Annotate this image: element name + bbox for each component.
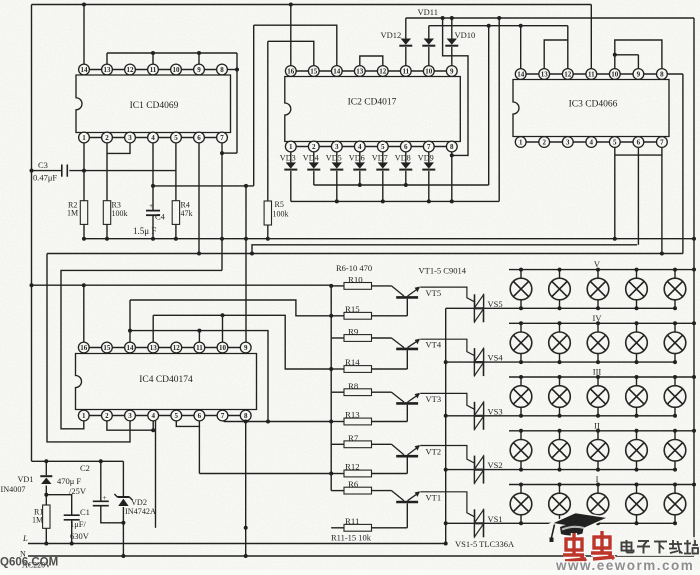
watermark chong chong red characters [563, 531, 614, 561]
lamp row II bulb 5 [664, 431, 686, 470]
wire N line [28, 555, 694, 557]
capacitor C4 [146, 201, 160, 239]
lamp row V bulb 2 [549, 270, 571, 309]
wire VDD top rail [32, 3, 592, 69]
wire even diode bus [291, 199, 499, 203]
lamp row I bulb 2 [549, 485, 571, 524]
wire IC2 pin14 feed [254, 25, 337, 66]
watermark dianzi xiazaizhan characters [617, 537, 700, 556]
wire IC1 pin6 to IC3 pin8 route [47, 74, 683, 442]
resistor R12 [331, 470, 407, 477]
wire lamp row rail II [446, 468, 677, 472]
label VT3 [426, 394, 442, 404]
label R13 [345, 410, 360, 420]
label VS3 [488, 406, 503, 416]
triac VS2 [475, 456, 484, 484]
wire IC3 pin12 feed [567, 26, 569, 69]
label VS5 [488, 299, 503, 309]
wire IC3 pin13 bridge [544, 40, 568, 69]
wire IC1 pin5 drop [175, 143, 177, 201]
resistor R14 [331, 366, 407, 373]
wire IC3 pin6 long route [252, 147, 638, 253]
wire IC4 pin2-pin4 bridge [107, 421, 155, 432]
wire IC3 pin5 drop [614, 155, 616, 239]
wire IC2 pin13-pin12 bridge [360, 56, 383, 66]
label R3 100k [112, 201, 128, 218]
resistor R11 [331, 524, 407, 531]
label VD3 [280, 153, 296, 162]
wire IC4 pin11 riser [197, 329, 201, 343]
IC IC2 package [285, 66, 461, 152]
label C4 1.5uF [133, 212, 166, 237]
label R4 47k [181, 201, 193, 218]
IC IC4 package [76, 342, 257, 421]
wire VT4 emitter to VS4 gate [420, 339, 474, 355]
wire lamp row top rail III [509, 375, 694, 379]
diode VD11 [422, 26, 435, 66]
lamp row I bulb 3 [587, 485, 609, 524]
resistor R13 [331, 418, 407, 425]
wire triac common bus [444, 308, 448, 543]
wire IC4 pin16 riser [83, 285, 85, 342]
transistor VT3 [392, 392, 420, 421]
wire right AC bus [692, 18, 696, 556]
lamp row III bulb 5 [664, 377, 686, 416]
wire rail A drop [498, 18, 500, 201]
resistor R9 [331, 335, 391, 342]
wire IC1 pin6 route corner [0, 0, 1, 1]
wire VT2 emitter to VS2 gate [420, 446, 474, 464]
wire lamp row top rail V [509, 268, 694, 272]
diode VD9 [422, 152, 435, 202]
lamp row IV bulb 3 [587, 323, 609, 362]
wire IC1 pin7 to IC4 pin1 route [61, 270, 222, 428]
label R9 [348, 327, 359, 337]
triac VS4 [475, 348, 484, 376]
transistor VT5 [392, 286, 420, 316]
wire IC1 pin6 drop [197, 143, 201, 256]
label VT4 [426, 339, 442, 349]
diode VD3 [284, 152, 297, 202]
label VD1 IN4007 [1, 475, 34, 494]
wire IC1 pin14 riser [83, 5, 85, 65]
label VD10 [455, 30, 476, 40]
lamp row III bulb 4 [626, 377, 648, 416]
diode VD10 [445, 18, 458, 66]
wire rail B drop [488, 26, 490, 185]
resistor R5 [264, 41, 271, 238]
diode VD8 [399, 152, 412, 185]
wire resistor ground rail [82, 237, 694, 241]
label R6-10 470 [336, 263, 372, 273]
label C3 [33, 160, 57, 183]
lamp row IV bulb 2 [549, 323, 571, 362]
wire VT3 emitter to VS3 gate [420, 393, 474, 409]
wire IC4 pin13 route [153, 313, 331, 369]
diode VD1 [40, 461, 52, 496]
lamp row V bulb 4 [626, 270, 648, 309]
triac VS3 [475, 402, 484, 430]
wire IC2 pin16 riser [290, 5, 292, 66]
label R10 [348, 275, 363, 285]
wire VT5 emitter to VS5 gate [420, 287, 474, 302]
wire lamp row rail IV [446, 360, 677, 364]
lamp row III bulb 1 [510, 377, 532, 416]
resistor R10 [331, 283, 391, 290]
wire lamp row rail I [446, 521, 677, 525]
wire IC3 pin5-pin7 bridge [615, 147, 662, 155]
label row I [596, 474, 599, 484]
label row IV [593, 313, 603, 323]
resistor R15 [331, 312, 407, 319]
label R12 [345, 462, 360, 472]
label C2 470uF 25V [57, 463, 90, 496]
wire IC2 pin8 drop [450, 152, 454, 202]
wire channel2 lower feed [199, 473, 331, 475]
wire odd diode bus [314, 183, 489, 187]
transistor VT1 [392, 491, 420, 528]
wire IC3 pin7 drop [661, 155, 663, 253]
capacitor C1 [46, 495, 79, 544]
lamp row III bulb 3 [587, 377, 609, 416]
wire IC2 pin9 loop [443, 18, 468, 155]
label VT1 [426, 493, 442, 503]
diode VD6 [353, 152, 366, 185]
label row III [593, 367, 602, 377]
capacitor C2 [93, 461, 126, 525]
wire sync rail lower [429, 24, 568, 28]
lamp row II bulb 3 [587, 431, 609, 470]
lamp row V bulb 1 [510, 270, 532, 309]
label R7 [348, 433, 359, 443]
wire channel input bus [329, 284, 333, 491]
capacitor C3 [32, 165, 176, 177]
wire lamp row rail V [446, 306, 677, 310]
lamp row V bulb 5 [664, 270, 686, 309]
wire IC1 pin4 drop [151, 143, 155, 211]
lamp row I bulb 4 [626, 485, 648, 524]
label R1 1M [32, 508, 43, 525]
label VD11 [418, 7, 438, 17]
wire IC3 pin10 pin9 pin8 bridges [613, 40, 662, 69]
label VD8 [395, 153, 411, 162]
resistor R2 [80, 201, 87, 239]
lamp row I bulb 5 [664, 485, 686, 524]
wire IC4 pin7 stub [223, 420, 225, 423]
label VD12 [381, 30, 402, 40]
resistor R3 [103, 201, 110, 239]
wire lamp row top rail II [509, 429, 694, 433]
label row II [594, 420, 600, 430]
wire IC1 pin1 drop [83, 143, 85, 201]
label VD7 [372, 153, 388, 162]
label R5 100k [273, 200, 289, 219]
label VT2 [426, 447, 442, 457]
label VT5 [426, 288, 442, 298]
wire IC4 pin4 drop to R11 line [155, 421, 157, 528]
label R11 [345, 516, 359, 526]
label VS1-5 TLC336A [455, 539, 515, 549]
label L [22, 533, 28, 543]
wire IC4 pin8 ground drop [244, 420, 248, 559]
label VD5 [326, 153, 342, 162]
watermark www.eeworm.com [555, 558, 694, 573]
label R14 [345, 357, 360, 367]
triac VS5 [475, 294, 484, 322]
wire DC node line [32, 459, 124, 463]
resistor R1 [43, 495, 50, 544]
resistor R4 [172, 201, 179, 239]
lamp row II bulb 2 [549, 431, 571, 470]
label VD6 [349, 153, 365, 162]
label R15 [345, 304, 360, 314]
lamp row II bulb 1 [510, 431, 532, 470]
wire lamp row rail III [446, 414, 677, 418]
wire lamp row top rail I [509, 483, 694, 487]
watermark Q606.COM [0, 557, 58, 569]
diode VD12 [399, 18, 412, 66]
lamp row V bulb 3 [587, 270, 609, 309]
wire IC4 pin5-pin6 bridge [176, 421, 199, 427]
wire pin14 branch to R13 line [130, 331, 270, 424]
label VD9 [418, 153, 434, 162]
label VD2 IN4742A [125, 498, 156, 516]
transistor VT2 [392, 444, 420, 473]
label VS2 [488, 460, 503, 470]
label R11-15 10k [331, 533, 372, 543]
diode VD7 [376, 152, 389, 202]
diode VD5 [330, 152, 343, 202]
diode VD4 [307, 152, 320, 185]
wire osc node to IC2 pin14 and IC4 pin9 [153, 25, 254, 342]
lamp row IV bulb 4 [626, 323, 648, 362]
label N [20, 550, 26, 559]
lamp row I bulb 1 [510, 485, 532, 524]
wire VDD to channel5 bus [32, 283, 332, 287]
wire IC1 pin7 ground drop [220, 143, 224, 271]
label C1 1uF 630V [70, 507, 90, 541]
IC IC3 package [513, 69, 669, 148]
lamp row IV bulb 5 [664, 323, 686, 362]
wire IC3 pin14 riser [520, 26, 522, 69]
lamp row III bulb 2 [549, 377, 571, 416]
wire IC4 pin14 route [128, 300, 331, 342]
label R6 [348, 479, 359, 489]
label R8 [348, 381, 359, 391]
wire IC1 pin2-pin3 bridge [107, 143, 130, 154]
transistor VT4 [392, 338, 420, 369]
lamp row IV bulb 1 [510, 323, 532, 362]
wire VT1 emitter to VS1 gate [420, 492, 474, 517]
wire lamp row top rail IV [509, 321, 694, 325]
resistor R7 [331, 441, 391, 448]
wire IC1 pins 13-11-9 top rail [107, 51, 239, 153]
resistor R6 [331, 487, 391, 494]
wire left supply bus [30, 5, 34, 462]
label AC220V [22, 561, 51, 570]
wire L line [28, 542, 448, 546]
label VS4 [488, 353, 504, 363]
label row V [594, 259, 601, 269]
IC IC1 package [76, 64, 231, 143]
wire IC4 pin6 drop [198, 426, 200, 473]
wire IC2 pin15 feed [268, 41, 314, 66]
label VT1-5 C9014 [419, 266, 467, 276]
label VD4 [303, 153, 319, 162]
label R2 1M [67, 201, 78, 218]
triac VS1 [475, 509, 484, 537]
diode VD2 zener [114, 461, 132, 558]
wire IC4 pin10 riser [222, 315, 224, 342]
wire sync rail upper [406, 16, 694, 20]
wire IC1 pin7 to pin8 link [222, 152, 237, 154]
resistor R8 [331, 389, 391, 396]
wire IC1 pin2 drop [106, 143, 108, 201]
wire channel3 lower feed [224, 421, 332, 423]
watermark graduation cap [550, 513, 609, 543]
lamp row II bulb 4 [626, 431, 648, 470]
label VS1 [488, 514, 503, 524]
